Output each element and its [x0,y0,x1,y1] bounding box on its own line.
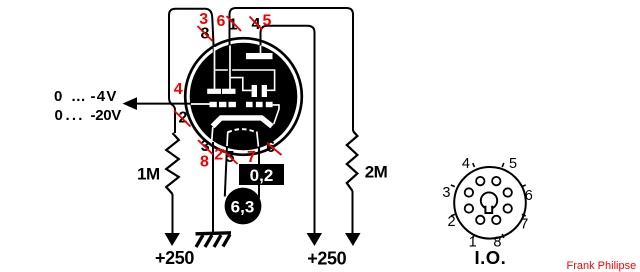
grid bar right [222,89,236,94]
wire: grid loop from pin 3/8 top over to 1M resistor [169,9,214,133]
strike pin 4 [250,17,263,30]
strike pin 2 [174,111,191,127]
internal link B [230,78,252,91]
socket I.O. base outline [454,167,526,239]
oscillator anode rod right [262,85,267,97]
grid wire internal right [229,46,231,90]
strike pin 8 [198,26,213,41]
svg-text:0,2: 0,2 [250,166,274,185]
plate bar [246,53,273,59]
arrowhead grid bias [123,97,138,110]
strike pin 1 [227,16,242,31]
ground [196,233,232,247]
pin labels bottom [198,138,282,171]
socket pin holes [465,177,512,224]
grid wire internal left [214,47,216,90]
heater lead internal left [226,132,229,147]
grid3 to cathode link [273,105,279,124]
strike pin 6 [267,143,282,155]
pin labels top [198,11,272,43]
svg-text:+250: +250 [155,248,194,268]
socket ticks [451,163,526,238]
grid bar left [207,89,221,94]
svg-text:+250: +250 [307,248,346,268]
svg-text:1M: 1M [137,165,160,184]
tube V1 envelope [185,38,302,155]
wire: 1M to +250 arrow [172,194,174,234]
wire: pin 6/1 top over to 2M resistor [230,8,354,131]
svg-text:4: 4 [174,81,183,98]
svg-text:7: 7 [247,149,256,166]
svg-text:2: 2 [448,214,456,230]
svg-text:6: 6 [525,188,533,204]
heater [228,129,257,132]
arrowhead +250 right inner [307,233,323,246]
arrowhead +250 left [165,233,181,246]
svg-text:2: 2 [179,109,188,126]
strike pin 5 [223,150,238,165]
resistor R2 2M [347,131,358,191]
resistor R1 1M [166,133,179,194]
oscillator anode rod left [252,85,257,97]
wire: heater pin 7 down to 6.3V [258,147,260,198]
svg-text:5: 5 [263,13,272,30]
heater supply 6,3 V [225,188,262,225]
svg-text:6: 6 [266,139,275,156]
wire: grid bias line to arrow [136,103,196,105]
svg-text:6: 6 [217,13,226,30]
cathode [213,118,272,126]
grid dashes row [210,102,273,107]
svg-text:7: 7 [520,216,528,232]
strike pin 3 [198,140,213,155]
svg-text:3: 3 [442,185,450,201]
svg-text:Frank Philipse: Frank Philipse [567,260,637,272]
svg-text:I.O.: I.O. [475,247,507,268]
svg-text:2: 2 [214,147,223,164]
tube V1 internal electrodes [191,46,279,147]
cathode lead internal [212,127,213,140]
svg-text:2M: 2M [365,163,388,182]
svg-text:8: 8 [200,154,209,171]
svg-text:6,3: 6,3 [231,197,255,216]
wire: plate pin 5 over to +250 arrow [261,26,315,234]
grid lead internal from pin 4 [191,103,210,105]
socket pin numbers [442,156,532,251]
internal link A [215,70,274,90]
svg-text:5: 5 [509,156,517,172]
wire: cathode to ground [212,142,214,233]
wire: 2M to +250 arrow [352,191,354,234]
pin labels left [174,81,191,127]
wire: heater pin 2 down to 6.3V [225,146,227,197]
socket key [481,192,497,213]
heater lead internal right [257,132,259,147]
svg-text:4: 4 [462,156,470,172]
value box 0,2 A heater current [239,164,284,185]
arrowhead +250 right outer [345,233,361,246]
plate lead internal [260,46,262,54]
